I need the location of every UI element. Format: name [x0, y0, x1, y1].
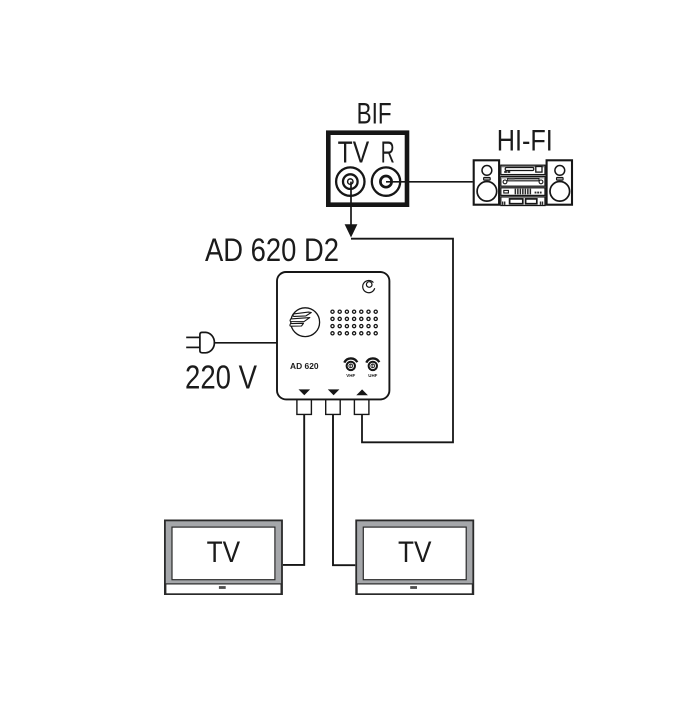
wire: arrow to amplifier input (right loop): [351, 239, 453, 443]
wire: plug to amplifier: [214, 342, 278, 344]
screw detail top-right: [363, 281, 375, 293]
connector stub 2: [326, 399, 341, 414]
svg-text:UHF: UHF: [368, 373, 377, 378]
output arrow down 1: [299, 389, 311, 395]
mains plug: [186, 332, 214, 352]
connector stub 3: [354, 399, 369, 414]
wire: stub1 to left TV: [283, 414, 304, 565]
hi-fi system: [474, 160, 572, 205]
svg-text:AD 620 D2: AD 620 D2: [205, 232, 339, 268]
wire: TV socket down to arrow: [350, 182, 352, 228]
ventilation holes grid: [331, 310, 377, 335]
output arrow down 2: [328, 389, 340, 395]
connector stub 1: [297, 399, 312, 414]
svg-text:TV: TV: [398, 536, 432, 569]
rack unit 4: dual cassette: [501, 197, 545, 206]
svg-text:HI-FI: HI-FI: [497, 125, 553, 158]
amplifier AD 620 body: [277, 272, 389, 399]
input arrow up: [356, 389, 368, 395]
wire: R socket to hi-fi: [386, 181, 473, 183]
TV set 1 (left): [165, 520, 282, 594]
right speaker: [547, 160, 572, 204]
VHF adjustment knob: [344, 358, 357, 370]
arrowhead down: [345, 224, 358, 237]
TV set 2 (right): [356, 520, 473, 594]
R socket (coax): [372, 167, 400, 195]
svg-text:220 V: 220 V: [185, 358, 257, 395]
UHF adjustment knob: [366, 358, 379, 370]
rack unit 2: CD player: [501, 176, 545, 186]
svg-text:BIF: BIF: [357, 97, 392, 130]
left speaker: [474, 160, 499, 204]
svg-text:R: R: [381, 134, 395, 169]
svg-text:TV: TV: [207, 536, 241, 569]
wire: stub2 to right TV: [333, 414, 355, 565]
TV socket (coax): [336, 167, 364, 195]
BIF wall outlet box: [328, 133, 407, 205]
rack unit 1: tape deck: [501, 165, 545, 174]
rack unit 3: equalizer: [501, 188, 545, 196]
logo circle with wing stripes: [290, 308, 320, 337]
svg-text:VHF: VHF: [346, 373, 355, 378]
svg-text:AD 620: AD 620: [290, 361, 319, 371]
svg-text:TV: TV: [338, 134, 370, 169]
